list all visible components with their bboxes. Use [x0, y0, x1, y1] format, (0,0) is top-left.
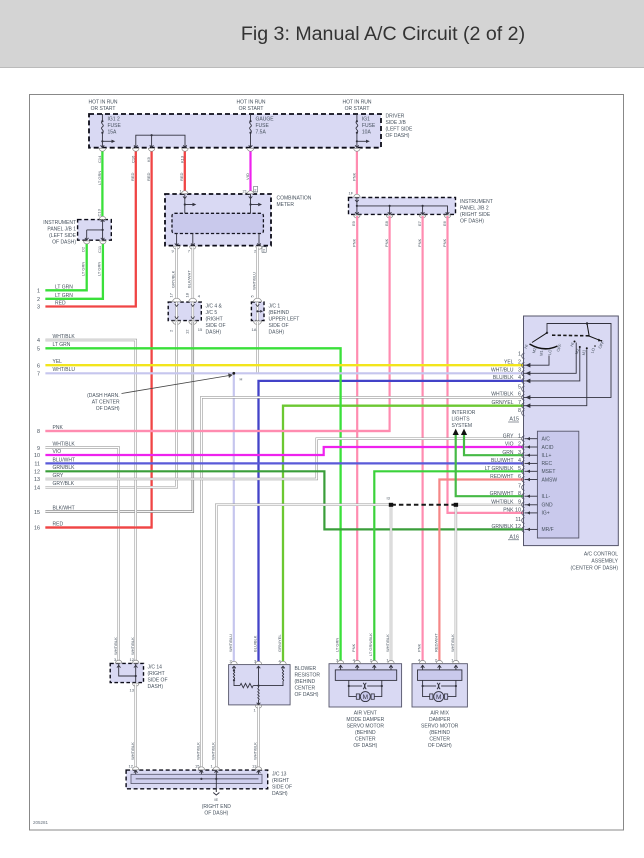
pin glyph [2] at meter VIO entry [254, 187, 258, 193]
wire LT GRN/BLK A16 pin 5 down to air vent servo pin 2 [374, 471, 523, 663]
svg-text:12: 12 [130, 657, 135, 662]
instrument panel J/B2 box [349, 198, 456, 215]
J/C 4 and J/C 5 box [168, 302, 201, 321]
svg-text:(RIGHT: (RIGHT [148, 671, 165, 677]
connector arc C13 entry [99, 216, 105, 219]
svg-text:WHT/BLU: WHT/BLU [491, 368, 514, 374]
svg-text:WHT/BLU: WHT/BLU [53, 367, 76, 373]
svg-text:IG1 2: IG1 2 [108, 117, 120, 123]
svg-text:8: 8 [37, 429, 40, 435]
svg-text:C16: C16 [130, 155, 135, 163]
svg-text:LT GRN: LT GRN [97, 262, 102, 276]
svg-text:(BEHIND: (BEHIND [355, 730, 376, 736]
svg-text:BLU/BLK: BLU/BLK [252, 635, 257, 652]
connector arcs air mix servo [419, 660, 459, 663]
wire PNK J/B2 to air mix servo pin 4 [422, 216, 424, 664]
svg-text:METER: METER [277, 202, 295, 208]
A15 pin numbers [518, 351, 521, 414]
label A/C CONTROL ASSEMBLY (CENTER OF DASH) [571, 552, 619, 572]
wire LT GRN from fuse C14 down to J/B1 [101, 150, 103, 220]
svg-text:C13: C13 [97, 208, 102, 216]
svg-text:1A: 1A [252, 327, 257, 332]
A16 connector label [508, 535, 519, 541]
svg-text:AIR MIX: AIR MIX [430, 711, 449, 717]
svg-text:OF DASH): OF DASH) [96, 406, 120, 412]
svg-text:(BEHIND: (BEHIND [429, 730, 450, 736]
svg-text:IE: IE [214, 797, 218, 802]
label AIR VENT MODE DAMPER SERVO MOTOR [346, 711, 384, 750]
wire GRY/BLK through J/C4 [175, 302, 178, 321]
svg-text:10A: 10A [362, 130, 372, 136]
svg-text:PNK: PNK [351, 172, 356, 181]
svg-text:15: 15 [34, 510, 40, 516]
wire WHT/BLK dashed splice segment I3 [391, 504, 456, 506]
svg-text:(LEFT SIDE: (LEFT SIDE [49, 233, 77, 239]
svg-text:BLK/WHT: BLK/WHT [187, 270, 192, 288]
svg-text:UPPER LEFT: UPPER LEFT [269, 317, 300, 323]
svg-text:E7: E7 [417, 220, 422, 226]
combination meter inner box [172, 213, 263, 233]
connector arc C16 [133, 148, 139, 151]
wire BLK/WHT through J/C5 [192, 302, 195, 321]
svg-text:OF DASH): OF DASH) [428, 743, 452, 749]
svg-text:M: M [436, 694, 441, 701]
arrow from dash harn label to junction H [122, 373, 233, 393]
svg-text:3: 3 [37, 305, 40, 311]
fuse IG1 2 15A [101, 114, 116, 148]
interior lights arrow left [453, 429, 459, 435]
svg-text:1: 1 [518, 351, 521, 357]
svg-text:DASH): DASH) [272, 791, 288, 797]
svg-text:BLU/WHT: BLU/WHT [53, 457, 76, 463]
interior lights arrow right [461, 429, 467, 435]
svg-text:13: 13 [252, 764, 257, 769]
J/C14 pin labels [114, 657, 135, 693]
wire GRN A16 pin 3 up to interior lights arrow [464, 434, 524, 455]
svg-text:(BEHIND: (BEHIND [295, 679, 316, 685]
svg-text:2: 2 [37, 297, 40, 303]
svg-text:1: 1 [518, 433, 521, 439]
svg-text:(RIGHT: (RIGHT [272, 778, 289, 784]
svg-text:INSTRUMENT: INSTRUMENT [460, 199, 493, 205]
wire WHT/BLU junction H down to blower resistor pin 2 [233, 373, 235, 664]
air mix servo entry leads [421, 665, 458, 670]
svg-text:13: 13 [34, 477, 40, 483]
svg-text:LT GRN: LT GRN [80, 262, 85, 276]
svg-text:WHT/BLK: WHT/BLK [196, 742, 201, 760]
A15 pin arrows [526, 364, 530, 408]
connector arc J/B2 entry [354, 194, 360, 197]
svg-text:J/C 4 &: J/C 4 & [206, 304, 223, 310]
J/C 1 box [251, 302, 264, 321]
wire PNK J/B2 down to A16 pin 10 [448, 216, 524, 513]
fuse IG1 10A [355, 114, 370, 148]
label INSTRUMENT PANEL J/B 2 (RIGHT SIDE OF DASH) [460, 199, 493, 225]
blower resistor box [229, 665, 291, 705]
wire 6 YEL left edge to A15 pin 2 [45, 364, 523, 366]
blower switch mechanical link dashed [552, 334, 589, 337]
switch wiring to A15 pins [524, 343, 587, 406]
svg-text:WHT/BLK: WHT/BLK [53, 442, 76, 448]
svg-text:YEL: YEL [53, 359, 63, 365]
svg-text:OF DASH): OF DASH) [353, 743, 377, 749]
svg-text:J/C 14: J/C 14 [148, 665, 163, 671]
svg-text:OF DASH): OF DASH) [204, 811, 228, 817]
svg-text:VIO: VIO [505, 442, 514, 448]
svg-text:LIGHTS: LIGHTS [452, 417, 471, 423]
wire WHT/BLK A15 pin 6 from corner down to J/C13 [201, 397, 523, 770]
svg-text:WHT/BLK: WHT/BLK [130, 742, 135, 760]
svg-text:GRN/WHT: GRN/WHT [490, 491, 514, 497]
svg-text:DRIVER: DRIVER [386, 114, 405, 120]
svg-text:(RIGHT SIDE: (RIGHT SIDE [460, 212, 491, 218]
air mix servo inner bar [418, 670, 462, 681]
junction dot I3 left [389, 503, 393, 507]
svg-text:PNK: PNK [352, 238, 357, 247]
label HOT IN RUN OR START (left) [88, 100, 117, 113]
svg-text:3: 3 [518, 450, 521, 456]
A16 pin stub lines [525, 439, 538, 530]
svg-text:E8: E8 [384, 220, 389, 226]
svg-text:GRN/BLK: GRN/BLK [53, 465, 76, 471]
svg-text:1F: 1F [349, 191, 354, 196]
wire 7 WHT/BLU left edge to A15 pin 3 [45, 372, 523, 374]
svg-text:GRN/YEL: GRN/YEL [492, 400, 514, 406]
svg-text:D2: D2 [81, 246, 86, 252]
svg-text:(RIGHT END: (RIGHT END [202, 804, 231, 810]
svg-text:AT CENTER: AT CENTER [92, 400, 120, 406]
svg-text:GRY/BLK: GRY/BLK [171, 270, 176, 288]
svg-text:LT GRN: LT GRN [335, 638, 340, 652]
connector arc K9 [148, 148, 154, 151]
svg-text:(RIGHT: (RIGHT [206, 317, 223, 323]
connector arcs J/C14 [116, 660, 139, 686]
A16 pin arrows [526, 437, 530, 531]
svg-text:IG1: IG1 [362, 117, 370, 123]
connector arcs J/C4-5 bottom [173, 321, 197, 325]
air mix servo motor M [423, 686, 456, 702]
svg-text:GRN: GRN [502, 450, 514, 456]
svg-text:RED: RED [53, 521, 64, 527]
svg-text:VIO: VIO [245, 173, 250, 180]
svg-text:WHT/BLK: WHT/BLK [450, 634, 455, 652]
J/C4-5 internal arrows [175, 304, 195, 319]
svg-text:E9: E9 [351, 220, 356, 226]
left switch wiper and contact arc [530, 333, 558, 349]
J/C13 internal wiring [134, 770, 260, 789]
connector arc meter exit 2 [256, 246, 262, 249]
wire RED from K13 down to combination meter pin 1 [184, 150, 186, 194]
combination meter outer box [165, 194, 271, 246]
svg-text:PANEL J/B 1: PANEL J/B 1 [47, 227, 76, 233]
ground wire below J/C13 [215, 789, 217, 792]
blower switch top feed line [524, 322, 612, 397]
wire BLK/WHT meter pin 7 to J/C5 [192, 248, 195, 303]
svg-text:LT GRN/BLK: LT GRN/BLK [485, 466, 514, 472]
wire VIO from gauge fuse to combination meter pin 21 [249, 150, 251, 194]
wire RED/WHT A16 pin 6 down to air mix servo pin 2 [439, 480, 523, 664]
svg-text:VIO: VIO [53, 449, 62, 455]
label J/C 1 (BEHIND UPPER LEFT SIDE OF DASH) [269, 304, 300, 336]
wire 2 LT GRN left edge [45, 298, 103, 300]
svg-text:LT GRN: LT GRN [97, 171, 102, 185]
svg-text:2: 2 [518, 442, 521, 448]
connector arc IG1 fuse exit [354, 148, 360, 151]
junction H dot on wire 7 [232, 372, 235, 375]
J/B internal bus to C16 K9 K13 [134, 134, 187, 148]
wire WHT/BLU through J/C1 [256, 302, 259, 321]
pin glyph [2] at meter exit [262, 247, 266, 253]
svg-text:12: 12 [185, 329, 190, 334]
diagram frame [30, 95, 624, 831]
instrument panel J/B1 box [78, 220, 112, 241]
svg-text:FUSE: FUSE [362, 123, 376, 129]
wire 5 LT GRN left edge to air vent servo pin 3 [45, 348, 340, 663]
svg-text:DAMPER: DAMPER [429, 717, 451, 723]
wire WHT/BLK A16 pin 9 solid segment from box [456, 504, 524, 506]
svg-text:J/C 1: J/C 1 [269, 304, 281, 310]
label J/C 4 & J/C 5 (RIGHT SIDE OF DASH) [206, 304, 226, 336]
svg-text:ILL+: ILL+ [542, 453, 552, 459]
svg-text:6: 6 [518, 392, 521, 398]
svg-text:WHT/BLU: WHT/BLU [251, 272, 256, 290]
svg-text:12: 12 [129, 764, 134, 769]
svg-text:MR/F: MR/F [542, 527, 554, 533]
svg-text:PNK: PNK [384, 238, 389, 247]
svg-text:WHT/BLK: WHT/BLK [113, 637, 118, 655]
connector arc meter RED entry [182, 191, 188, 194]
svg-text:MODE DAMPER: MODE DAMPER [346, 717, 384, 723]
svg-text:8: 8 [518, 491, 521, 497]
wire labels PNK on verticals [352, 238, 447, 247]
svg-text:LO: LO [547, 349, 552, 355]
svg-text:SIDE OF: SIDE OF [272, 785, 292, 791]
svg-text:GRY: GRY [53, 473, 64, 479]
connector arc J/C1 bottom [254, 321, 262, 325]
svg-text:LT GRN/BLK: LT GRN/BLK [368, 633, 373, 656]
connector arcs J/C13 top [133, 767, 262, 770]
svg-text:9: 9 [37, 446, 40, 452]
svg-text:CENTER: CENTER [429, 737, 450, 743]
svg-text:WHT/BLK: WHT/BLK [491, 499, 514, 505]
svg-text:SYSTEM: SYSTEM [452, 423, 473, 429]
svg-text:(LEFT SIDE: (LEFT SIDE [386, 127, 414, 133]
svg-text:18: 18 [185, 292, 190, 297]
svg-text:ASSEMBLY: ASSEMBLY [591, 559, 618, 565]
svg-text:14: 14 [34, 485, 40, 491]
svg-text:CENTER: CENTER [295, 686, 316, 692]
driver side J/B box [89, 114, 381, 148]
wire PNK J/B2 to air vent servo pin 4 [356, 216, 358, 664]
svg-text:7: 7 [518, 483, 521, 489]
svg-text:OR START: OR START [91, 106, 116, 112]
svg-text:5: 5 [518, 466, 521, 472]
svg-text:WHT/BLU: WHT/BLU [228, 634, 233, 652]
svg-text:ILL-: ILL- [542, 494, 551, 500]
svg-text:7.5A: 7.5A [256, 130, 267, 136]
svg-text:GRN/BLK: GRN/BLK [492, 524, 515, 530]
label HOT IN RUN OR START (right) [342, 100, 371, 113]
svg-text:GRY/BLK: GRY/BLK [53, 481, 75, 487]
svg-text:PNK: PNK [53, 425, 64, 431]
svg-text:E6: E6 [442, 220, 447, 226]
svg-text:PNK: PNK [503, 508, 514, 514]
svg-text:OF DASH): OF DASH) [386, 133, 410, 139]
blower pin numbers [230, 659, 282, 713]
svg-text:11: 11 [34, 462, 40, 468]
svg-text:10: 10 [515, 508, 521, 514]
connector arc meter exit 9 [173, 246, 179, 249]
wire GRY/BLK J/C4 down to wire 14 [45, 322, 176, 487]
connector arc meter exit 7 [190, 246, 196, 249]
connector arc C11 [100, 241, 106, 244]
svg-text:PNK: PNK [417, 643, 422, 652]
svg-text:(CENTER OF DASH): (CENTER OF DASH) [571, 566, 619, 572]
svg-text:OR START: OR START [239, 106, 264, 112]
meter exit leads to bottom edge [175, 234, 261, 246]
svg-text:RED: RED [55, 301, 66, 307]
svg-text:SIDE OF: SIDE OF [148, 678, 168, 684]
svg-text:WHT/BLK: WHT/BLK [53, 334, 76, 340]
svg-text:CENTER: CENTER [355, 737, 376, 743]
svg-text:9: 9 [518, 500, 521, 506]
A/C control assembly box [524, 316, 619, 546]
svg-text:BLU/BLK: BLU/BLK [493, 375, 514, 381]
connector arc blower bottom [255, 705, 261, 708]
J/C 13 box [126, 770, 268, 789]
svg-text:A/C: A/C [542, 437, 551, 443]
svg-text:J/C 13: J/C 13 [272, 772, 287, 778]
svg-text:RED: RED [179, 172, 184, 181]
wire BLK/WHT J/C5 down to wire 15 [45, 322, 192, 512]
svg-text:GRY: GRY [503, 433, 514, 439]
svg-text:OR START: OR START [345, 106, 370, 112]
svg-text:12: 12 [34, 470, 40, 476]
svg-text:LT GRN: LT GRN [53, 342, 71, 348]
connector arc D2 [84, 241, 90, 244]
J/B1 internal wiring [85, 220, 105, 241]
svg-text:6: 6 [518, 474, 521, 480]
svg-text:YEL: YEL [504, 359, 514, 365]
svg-text:RED/WHT: RED/WHT [433, 633, 438, 652]
wire GRN/WHT A16 pin 8 up to interior lights arrow [456, 434, 524, 496]
label INSTRUMENT PANEL J/B 1 (LEFT SIDE OF DASH) [43, 220, 76, 246]
right switch contact labels [569, 340, 606, 356]
header bar [0, 0, 644, 68]
ground symbol IE [213, 793, 219, 796]
svg-text:COMBINATION: COMBINATION [277, 196, 312, 202]
svg-text:8: 8 [518, 408, 521, 414]
svg-text:GRN/YEL: GRN/YEL [277, 634, 282, 652]
svg-text:7: 7 [518, 400, 521, 406]
svg-text:REC: REC [542, 461, 553, 467]
svg-text:FUSE: FUSE [256, 123, 270, 129]
air mix damper servo motor box [412, 664, 467, 707]
svg-text:RED: RED [130, 172, 135, 181]
air vent servo entry leads [339, 665, 393, 670]
svg-text:MSET: MSET [542, 469, 556, 475]
connector arc meter VIO entry [247, 191, 253, 194]
A15 connector label [508, 417, 519, 423]
J/B2 internal bus [355, 198, 449, 215]
svg-text:1: 1 [37, 289, 40, 295]
svg-text:AMSW: AMSW [542, 477, 558, 483]
svg-text:PANEL J/B 2: PANEL J/B 2 [460, 206, 489, 212]
svg-text:2: 2 [518, 360, 521, 366]
J/C13 inner rect [131, 774, 262, 783]
svg-text:RESISTOR: RESISTOR [295, 673, 321, 679]
label J/C 14 (RIGHT SIDE OF DASH) [148, 665, 168, 691]
svg-text:21: 21 [243, 189, 248, 194]
wire 13 GRY left edge up to A16 pin 1 [45, 439, 523, 479]
svg-text:H: H [240, 377, 243, 382]
A15 connector arcs [522, 353, 525, 416]
svg-text:OF DASH): OF DASH) [52, 240, 76, 246]
wire LT GRN C11 down then left to edge wire 2 [45, 242, 103, 299]
junction dot I3 right [454, 503, 458, 507]
svg-text:3: 3 [518, 368, 521, 374]
label DASH HARN AT CENTER OF DASH [87, 393, 120, 412]
label fuse GAUGE 7.5A [256, 117, 275, 136]
svg-text:PNK: PNK [417, 238, 422, 247]
connector arcs J/C4-5 top [173, 298, 197, 302]
label DRIVER SIDE J/B (LEFT SIDE OF DASH) [386, 114, 414, 140]
air mix servo capacitor link [422, 680, 458, 689]
air vent mode damper servo motor box [329, 664, 402, 707]
connector arcs J/B2 exits [354, 215, 451, 218]
svg-text:16: 16 [34, 526, 40, 532]
wire WHT/BLU J/C1 down to wire 7 [256, 322, 259, 373]
wire WHT/BLK from I3 junction left and down to J/C13 [216, 505, 391, 770]
label AIR MIX DAMPER SERVO MOTOR [421, 711, 459, 750]
wire 10 VIO left edge with jog to A16 pin 2 [45, 447, 523, 455]
connector arc J/C1 top [254, 298, 262, 302]
svg-text:DASH): DASH) [269, 330, 285, 336]
svg-text:SIDE OF: SIDE OF [269, 323, 289, 329]
label COMBINATION METER [277, 196, 312, 209]
meter internal VIO entry lead [249, 194, 262, 213]
svg-text:A/C CONTROL: A/C CONTROL [584, 552, 618, 558]
right switch wiper [587, 324, 602, 342]
pin labels J/B2 exits [351, 220, 447, 226]
svg-text:DASH): DASH) [206, 330, 222, 336]
svg-text:4: 4 [518, 458, 521, 464]
label RIGHT END OF DASH [202, 804, 231, 817]
svg-text:7: 7 [37, 372, 40, 378]
left switch contact labels [523, 343, 563, 356]
svg-text:(DASH HARN.: (DASH HARN. [87, 393, 120, 399]
svg-text:C11: C11 [97, 245, 102, 253]
svg-text:5: 5 [518, 384, 521, 390]
A16 inner pin box [537, 431, 578, 538]
air vent servo motor M [349, 686, 382, 702]
svg-text:RED: RED [146, 172, 151, 181]
connector arc K13 [182, 148, 188, 151]
pin labels J/C4-5 [168, 292, 203, 334]
wire WHT/BLK blower resistor down to J/C13 [257, 707, 260, 771]
svg-text:BLU/WHT: BLU/WHT [491, 458, 514, 464]
wire GRY/BLK meter pin 9 to J/C4 [175, 248, 178, 303]
svg-text:WHT/BLK: WHT/BLK [210, 742, 215, 760]
svg-text:WHT/BLK: WHT/BLK [253, 742, 258, 760]
connector arcs air vent servo [337, 660, 394, 663]
svg-text:4: 4 [37, 338, 40, 344]
air vent servo inner bar [335, 670, 396, 681]
label HOT IN RUN OR START (middle) [236, 100, 265, 113]
A16 pin numbers [515, 433, 521, 530]
left edge wire number labels [34, 289, 40, 532]
svg-text:15: 15 [195, 764, 200, 769]
